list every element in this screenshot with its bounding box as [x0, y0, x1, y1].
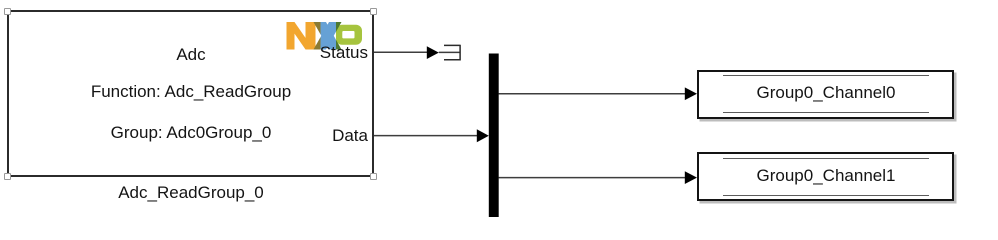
text Adc	[41, 46, 341, 63]
inner line bottom of Group0_Channel1	[723, 195, 929, 196]
wire demux out2	[499, 177, 687, 179]
arrowhead out2	[685, 171, 697, 184]
letter N (orange)	[287, 22, 316, 50]
inner line top of Group0_Channel0	[723, 75, 929, 76]
wire demux out1	[499, 93, 687, 95]
text Group0_Channel1	[676, 167, 976, 184]
block name Adc_ReadGroup_0	[41, 184, 341, 201]
letter P (green)	[336, 25, 362, 45]
selection handle top-left	[4, 8, 11, 15]
subsystem block Adc_ReadGroup_0	[7, 10, 374, 177]
arrowhead out1	[685, 87, 697, 100]
letter X (olive/blue/dark-green bands)	[314, 22, 342, 50]
port label Data	[268, 127, 368, 144]
display block Group0_Channel0	[697, 70, 954, 119]
wire Status	[374, 51, 428, 53]
wire into terminator	[439, 51, 460, 53]
inner line bottom of Group0_Channel0	[723, 112, 929, 113]
port label Status	[268, 44, 368, 61]
text Group0_Channel0	[676, 84, 976, 101]
arrowhead Status wire	[427, 46, 439, 59]
demux Demux1	[489, 54, 499, 218]
selection handle top-right	[370, 8, 377, 15]
text Function	[41, 83, 341, 100]
wire Data	[374, 135, 478, 137]
inner line top of Group0_Channel1	[723, 158, 929, 159]
selection handle bottom-left	[4, 173, 11, 180]
arrowhead Data wire	[477, 129, 489, 142]
text Group	[41, 124, 341, 141]
NXP logo	[287, 22, 363, 50]
display block Group0_Channel1	[697, 152, 954, 201]
terminator block	[444, 45, 460, 61]
selection handle bottom-right	[370, 173, 377, 180]
